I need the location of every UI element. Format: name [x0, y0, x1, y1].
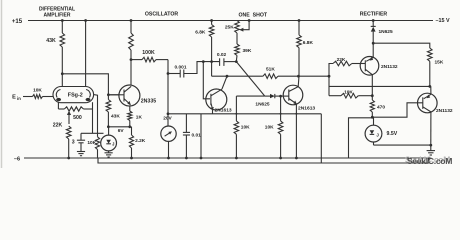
diode CR1 1N625: [265, 94, 281, 98]
node 0.01 label: [192, 132, 202, 138]
resistor R8 100K: [131, 57, 168, 62]
node collector junction K: [297, 75, 300, 78]
node 1N625 label: [255, 101, 269, 107]
svg-text:22K: 22K: [337, 57, 346, 63]
capacitor C2 0.001: [168, 62, 219, 78]
resistor R9 1K emitter: [128, 106, 132, 127]
node ONE SHOT header: [239, 13, 268, 19]
node base link junction: [371, 116, 374, 119]
resistor R10 2.2K: [129, 127, 133, 158]
node 6V label: [118, 128, 125, 134]
node 9.5V label: [387, 131, 398, 137]
node base junction B: [107, 93, 110, 96]
svg-text:0.01: 0.01: [192, 132, 202, 138]
svg-text:in: in: [17, 96, 21, 101]
svg-text:39K: 39K: [243, 48, 252, 54]
node output junction E: [167, 72, 170, 75]
wire cathode right to node line: [92, 109, 94, 133]
node 15K label: [435, 60, 444, 66]
wire tube grid right lead: [94, 95, 98, 134]
resistor R1 43K plate load: [60, 21, 65, 74]
wire plate to oscillator base: [62, 74, 108, 95]
resistor R20 15K: [373, 43, 432, 86]
svg-text:FSg-2: FSg-2: [68, 93, 83, 99]
svg-text:20V: 20V: [163, 115, 172, 121]
potentiometer R12 25K: [235, 21, 240, 45]
resistor R11 6.8K: [209, 21, 214, 62]
wire oscillator output column: [167, 60, 169, 126]
svg-text:–6: –6: [14, 157, 20, 163]
node bias junction C: [107, 125, 110, 128]
wire 6.8K to 5K bus: [211, 62, 213, 77]
wire 25K wiper: [239, 21, 249, 32]
node top rail junction dots: [61, 19, 375, 22]
node emitter junction M: [372, 42, 375, 45]
potentiometer R3 500 balance: [58, 107, 92, 111]
resistor R7 collector load: [129, 21, 134, 60]
node 1K label: [136, 114, 143, 120]
node diode junction L: [279, 95, 282, 98]
node output junction F: [167, 112, 170, 115]
resistor R14 51K crosscouple: [212, 74, 299, 79]
transistor Q1 2N335: [108, 85, 139, 106]
svg-text:22K: 22K: [53, 123, 63, 129]
svg-text:+15: +15: [12, 19, 23, 25]
node 100K label: [142, 50, 155, 56]
resistor R2 10K input: [23, 95, 53, 99]
node collector junction J: [226, 75, 229, 78]
node DIFFERENTIAL AMPLIFIER header: [39, 7, 75, 19]
node collector junction D: [130, 58, 133, 61]
svg-text:2N1132: 2N1132: [381, 64, 398, 70]
resistor R13 39K: [235, 44, 240, 62]
node 2N1132 first label: [381, 64, 398, 70]
wire Q5 emitter riser: [430, 86, 432, 94]
node -6 label: [14, 157, 20, 163]
svg-text:0.001: 0.001: [174, 64, 186, 70]
svg-text:E: E: [12, 94, 16, 100]
node 3uF label: [72, 140, 75, 146]
tube V1 internal electrodes: [56, 90, 90, 102]
node 6.8K label: [195, 30, 206, 36]
node +15 label: [12, 19, 23, 25]
node 2N1613 left label: [215, 107, 232, 113]
wire trigger line: [168, 113, 321, 115]
wire Q4 collector drop: [371, 75, 373, 96]
node 43K label: [46, 38, 56, 44]
ground lamp return: [105, 151, 113, 157]
svg-text:2.2K: 2.2K: [135, 138, 146, 144]
wire -6 bottom rail: [24, 157, 431, 159]
svg-text:6.8K: 6.8K: [195, 30, 206, 36]
node coupling junction H: [210, 60, 213, 63]
svg-text:100K: 100K: [142, 50, 155, 56]
node 10K cathode label: [87, 140, 96, 146]
svg-text:–15 V: –15 V: [436, 18, 450, 24]
capacitor C4 0.02: [220, 58, 237, 66]
capacitor C1 3uF: [77, 133, 85, 151]
wire cathode left lead: [57, 102, 59, 109]
node 10K input label: [33, 88, 42, 94]
svg-text:SeekIC.coM: SeekIC.coM: [407, 156, 452, 166]
svg-text:ONE SHOT: ONE SHOT: [239, 13, 268, 19]
resistor R17 6.8K collector: [297, 21, 302, 87]
transistor Q4 2N1132: [360, 57, 379, 76]
lamp DS1 6V regulator: [101, 127, 117, 151]
resistor R4 22K tail: [66, 126, 71, 158]
transistor Q3 2N1613: [283, 85, 303, 105]
wire oneshot to rectifier bend: [329, 64, 333, 77]
node plate junction A: [61, 72, 64, 75]
wire 5K bus extension: [299, 75, 330, 77]
wire Q3 emitter drop: [295, 104, 297, 158]
svg-text:2N1613: 2N1613: [298, 105, 315, 111]
wire collector drop: [130, 60, 132, 86]
node OSCILLATOR header: [145, 12, 178, 18]
resistor R6 43K bias: [106, 95, 111, 127]
wire tube right plate drop: [85, 21, 87, 87]
wire lamp to ground: [374, 142, 431, 145]
svg-text:15K: 15K: [435, 60, 444, 66]
svg-text:51K: 51K: [266, 67, 275, 73]
svg-text:0.02: 0.02: [217, 52, 227, 58]
wire +15 top rail: [28, 20, 433, 22]
svg-text:10K: 10K: [87, 140, 96, 146]
node 0.001 label: [174, 64, 186, 70]
svg-text:2N335: 2N335: [141, 98, 156, 104]
node 39K label: [243, 48, 252, 54]
node 10K rect label: [344, 89, 353, 95]
node 10K left label: [241, 125, 250, 131]
lamp DS3 9.5V regulator: [365, 117, 382, 142]
wire Q2 collector riser: [222, 76, 227, 89]
svg-text:10K: 10K: [241, 125, 250, 131]
node 1N625 rect label: [379, 29, 393, 35]
node watermark: [405, 155, 452, 166]
svg-text:AMPLIFIER: AMPLIFIER: [44, 13, 71, 19]
node 51K label: [266, 67, 275, 73]
wire trigger return drop: [320, 114, 322, 163]
svg-text:6V: 6V: [118, 128, 125, 134]
wire emitter bias tie: [109, 126, 132, 128]
wire cathode right lead: [92, 102, 94, 109]
node 0.02 label: [217, 52, 227, 58]
wire Q2 base feed: [203, 62, 210, 99]
node 470 label: [377, 105, 385, 111]
node Ein input label: [12, 94, 21, 101]
wire diode to base: [281, 95, 289, 97]
lamp DS2 20V neon: [161, 126, 176, 141]
wire cathode node line: [81, 132, 104, 134]
node 20V label: [163, 115, 172, 121]
wire tube left plate drop: [61, 74, 63, 87]
node base feed junction: [202, 60, 205, 63]
wire collector to rail drop: [349, 118, 373, 158]
svg-text:500: 500: [73, 115, 82, 121]
wire 500 wiper arrow: [67, 111, 71, 124]
svg-text:470: 470: [377, 105, 385, 111]
node 500 label: [73, 115, 82, 121]
svg-text:RECTIFIER: RECTIFIER: [360, 12, 388, 18]
wire Q5 collector drop: [430, 112, 432, 145]
node 22K base label: [337, 57, 346, 63]
svg-text:10K: 10K: [265, 125, 274, 131]
ground cathode bypass: [77, 152, 85, 156]
node rectifier tap: [328, 75, 331, 78]
node 2N335 label: [141, 98, 156, 104]
transistor Q5 2N1132: [418, 93, 438, 113]
svg-text:10K: 10K: [344, 89, 353, 95]
resistor R15 10K left: [234, 96, 265, 158]
node collector junction O: [371, 94, 374, 97]
wire neon to rail: [168, 141, 170, 158]
node timing junction I: [235, 60, 238, 63]
ground chassis: [427, 145, 435, 155]
node 6.8K right label: [303, 40, 314, 46]
svg-text:1K: 1K: [136, 114, 143, 120]
svg-text:43K: 43K: [46, 38, 56, 44]
wire output bus: [329, 85, 431, 87]
wire base stub: [108, 94, 119, 96]
wire trigger drop: [200, 114, 202, 158]
diode CR2 1N625: [371, 21, 376, 44]
svg-text:3: 3: [72, 140, 75, 146]
resistor R16 10K right: [278, 96, 283, 158]
node trigger crossings: [235, 113, 297, 115]
resistor R18 22K base: [333, 61, 360, 66]
wire rectifier jog: [328, 76, 330, 96]
svg-text:2N1132: 2N1132: [436, 108, 453, 114]
wire timing diagonal: [236, 62, 264, 97]
resistor R21 470: [370, 96, 374, 118]
svg-text:1N625: 1N625: [379, 29, 393, 35]
node 43K bias label: [111, 113, 120, 119]
wire base link: [372, 103, 423, 117]
node 25K label: [225, 25, 234, 31]
node 2N1613 right label: [298, 105, 315, 111]
svg-text:9.5V: 9.5V: [387, 131, 398, 137]
wire Q4 emitter riser: [372, 43, 374, 57]
svg-text:43K: 43K: [111, 113, 120, 119]
svg-text:6.8K: 6.8K: [303, 40, 314, 46]
node 2N1132 second label: [436, 108, 453, 114]
transistor Q2 2N1613: [206, 89, 227, 110]
wire Q2 emitter lead: [212, 110, 214, 114]
svg-text:2N1613: 2N1613: [215, 107, 232, 113]
node 22K label: [53, 123, 63, 129]
tube V1 FSg-2 envelope: [53, 87, 94, 103]
node RECTIFIER header: [360, 12, 388, 18]
svg-text:10K: 10K: [33, 88, 42, 94]
node output junction N: [428, 85, 431, 88]
svg-text:OSCILLATOR: OSCILLATOR: [145, 12, 178, 18]
svg-text:1N625: 1N625: [255, 101, 269, 107]
node -15V label: [436, 18, 450, 24]
resistor R19 10K: [329, 93, 372, 98]
resistor R5 10K cathode: [95, 133, 99, 158]
node -6 rail junction dots: [67, 157, 298, 160]
node FSg-2 label: [68, 93, 83, 99]
wire ground return bus: [98, 157, 429, 163]
node 2.2K label: [135, 138, 146, 144]
capacitor C3 0.01: [183, 114, 190, 158]
node emitter junction G: [128, 125, 131, 128]
node 10K right label: [265, 125, 274, 131]
node ground junction P: [429, 144, 432, 147]
svg-text:25K: 25K: [225, 25, 234, 31]
